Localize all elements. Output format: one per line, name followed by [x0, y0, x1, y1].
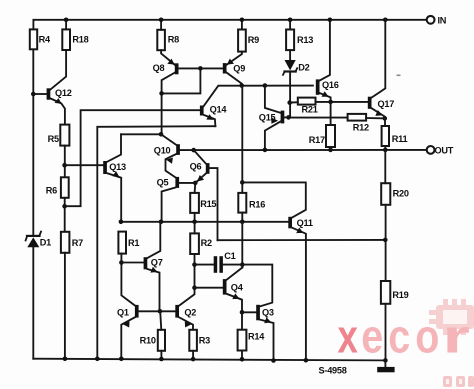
svg-text:R20: R20 [393, 189, 409, 199]
wire output line [194, 149, 427, 151]
ground symbol [384, 360, 386, 367]
svg-text:R16: R16 [249, 200, 265, 210]
transistor Q4 [223, 268, 243, 330]
svg-text:R2: R2 [201, 238, 212, 248]
wire R10 top lead [160, 311, 161, 330]
resistor R4 [30, 29, 37, 49]
svg-text:r: r [443, 310, 470, 363]
junction dot Q15 collector node [263, 83, 268, 88]
wire bottom ground rail [33, 359, 385, 361]
junction dot R7 ground [63, 357, 68, 362]
svg-text:Q1: Q1 [117, 307, 129, 317]
transistor Q1 [121, 305, 175, 359]
wire R1 bottom to Q1 collector [121, 254, 135, 306]
junction dot Q1 emitter ground [119, 357, 124, 362]
junction dot R8 top [159, 18, 164, 23]
junction dot C1 right node [240, 262, 245, 267]
svg-text:Q10: Q10 [154, 145, 171, 155]
wire R11 bottom lead [384, 146, 386, 150]
junction dot Q5 base / Q6 emitter / R15 [193, 181, 198, 186]
junction dot Q11 emitter ground [304, 358, 309, 363]
svg-text:R9: R9 [248, 35, 259, 45]
svg-text:Q5: Q5 [157, 178, 169, 188]
resistor R17 [326, 125, 335, 147]
wire Q13 base line [65, 164, 104, 166]
svg-text:Q17: Q17 [378, 99, 395, 109]
junction dot Q3 base / R14 [240, 310, 245, 315]
wire feedback line [218, 239, 386, 241]
junction dot R3 ground [191, 357, 196, 362]
watermark bottom-right fragment [443, 376, 474, 387]
transistor Q9 [223, 52, 242, 86]
svg-text:R1: R1 [128, 238, 139, 248]
wire R6 tap jog to Q14 base [65, 110, 200, 206]
junction dot R16 bottom node [240, 220, 245, 225]
svg-text:Q9: Q9 [233, 64, 245, 74]
wire Q8 collector-base link [162, 68, 201, 93]
junction dot R21 left [287, 100, 292, 105]
zener diode D1 [26, 232, 41, 248]
wire Q15 base to R12 [289, 117, 348, 119]
svg-text:R10: R10 [140, 335, 156, 345]
wire R21 left lead [290, 101, 298, 103]
resistor R2 [190, 233, 199, 254]
wire R20 to R19 [385, 205, 387, 281]
resistor R14 [238, 330, 247, 351]
transistor Q3 [256, 305, 273, 361]
svg-text:R13: R13 [297, 35, 313, 45]
junction dot R17 out [328, 148, 333, 153]
resistor R11 [382, 126, 389, 146]
wire C1 node to Q3 collector [242, 265, 272, 307]
transistor Q17 [368, 20, 386, 119]
resistor R20 [381, 183, 390, 205]
resistor R18 [62, 29, 70, 50]
wire Q14 emitter long return [97, 126, 215, 359]
wire R11 top lead [384, 118, 386, 126]
svg-text:R18: R18 [72, 35, 88, 45]
wire D2 to Q15 base node [289, 73, 291, 118]
junction dot Q17 collector rail [383, 18, 388, 23]
svg-text:R21: R21 [302, 105, 318, 115]
svg-text:R15: R15 [200, 199, 216, 209]
wire R13 top lead [289, 20, 291, 30]
junction dot ground rail end [383, 358, 388, 363]
svg-text:Q11: Q11 [297, 218, 313, 228]
svg-text:eco: eco [361, 311, 444, 363]
wire R7 bottom to rail [64, 253, 66, 359]
svg-text:Q4: Q4 [231, 283, 244, 293]
transistor Q13 [103, 134, 121, 222]
wire common node line [121, 221, 288, 223]
svg-text:Q3: Q3 [262, 308, 274, 318]
svg-text:R14: R14 [248, 332, 265, 342]
junction dot Q7 base / R1 [119, 260, 124, 265]
junction dot R20/R19 tap [383, 238, 388, 243]
resistor R9 [238, 30, 246, 52]
resistor R12 [348, 114, 367, 121]
resistor R21 [298, 98, 316, 105]
svg-text:Q7: Q7 [151, 258, 163, 268]
wire D1 anode to bottom rail [32, 247, 34, 359]
junction dot Q8 collector [159, 91, 164, 96]
transistor Q8 [161, 50, 223, 134]
junction dot Q15 base [286, 115, 291, 120]
resistor R16 [238, 193, 246, 213]
junction dot Q10 base / Q6 collector / out line [191, 148, 196, 153]
svg-text:x: x [338, 310, 359, 362]
transistor Q7 [121, 222, 160, 311]
resistor R10 [158, 330, 165, 351]
junction dot R15 bottom node [192, 220, 197, 225]
resistor R6 [61, 177, 69, 198]
wire R12 right lead [366, 117, 385, 119]
wire R10 bottom lead [160, 351, 162, 359]
resistor R8 [157, 30, 165, 50]
svg-text:IN: IN [438, 15, 447, 25]
wire R19 bottom lead [385, 304, 387, 361]
svg-text:R17: R17 [309, 135, 325, 145]
wire R15 top lead [194, 183, 197, 193]
junction dot Q8/Q9 base rail [198, 66, 203, 71]
junction dot R13 top [288, 18, 293, 23]
svg-text:R12: R12 [353, 122, 369, 132]
wire R2 top lead [194, 222, 196, 234]
transistor Q16 [316, 20, 331, 125]
junction dot Q17 emitter / R11 / R12 [383, 116, 388, 121]
wire R15 bottom lead [194, 213, 196, 222]
svg-text:R7: R7 [72, 238, 83, 248]
speck artifact [397, 75, 401, 77]
terminal OUT [427, 146, 435, 154]
junction dot Q1/Q2 base rail [158, 309, 163, 314]
junction dot R18 top [64, 18, 69, 23]
junction dot Q10 emitter node [159, 132, 164, 137]
watermark text xecor [338, 310, 470, 363]
junction dot R9 top [240, 18, 245, 23]
svg-text:R3: R3 [199, 335, 210, 345]
wire Q13 collector to Q10 emitter node [121, 133, 161, 135]
junction dot Q9 collector node [239, 83, 244, 88]
resistor R5 [60, 125, 69, 146]
wire left column R4 to D1 [32, 49, 34, 235]
transistor Q6 [194, 150, 218, 240]
wire R14 bottom lead [241, 351, 243, 360]
junction dot R1 top [119, 220, 124, 225]
svg-text:Q6: Q6 [190, 161, 202, 171]
junction dot Q12 base / R4 [31, 92, 36, 97]
junction dot Q3 emitter ground [271, 358, 276, 363]
wire Q11 collector branch [242, 182, 305, 217]
transistor Q14 [200, 86, 313, 127]
junction dot R21 right / Q16 emitter [328, 100, 333, 105]
transistor Q10 [161, 134, 194, 177]
zener diode D2 [283, 50, 297, 75]
svg-text:D1: D1 [40, 238, 51, 248]
svg-text:R8: R8 [168, 35, 179, 45]
svg-text:R19: R19 [392, 290, 408, 300]
wire R8 top lead [160, 20, 162, 30]
terminal IN [427, 16, 435, 24]
transistor Q2 [175, 305, 193, 330]
junction dot R16 top / Q11 collector branch [240, 180, 245, 185]
svg-text:R5: R5 [48, 134, 59, 144]
svg-text:Q8: Q8 [153, 63, 165, 73]
wire R9 top lead [241, 20, 243, 30]
svg-text:Q13: Q13 [109, 162, 126, 172]
wire R2 bottom to Q2 collector [179, 254, 194, 306]
transistor Q12 [33, 50, 66, 125]
junction dot Q14 emitter ground [95, 357, 100, 362]
junction dot Q15 emitter out [263, 148, 268, 153]
resistor R7 [61, 232, 70, 253]
wire R21 right lead / Q17 base line [316, 101, 368, 103]
junction dot Q4 base node [192, 285, 197, 290]
svg-text:S-4958: S-4958 [319, 366, 347, 376]
wire R20 top lead [384, 150, 386, 183]
wire Q4 base line [195, 287, 223, 289]
junction dot R5/R6 divider tap [62, 163, 67, 168]
wire Q9 collector to R16 [241, 86, 243, 193]
svg-text:R4: R4 [39, 35, 51, 45]
wire R5 to R6 [64, 146, 66, 178]
transistor Q15 [265, 86, 289, 150]
junction dot R10 ground [159, 357, 164, 362]
junction dot Q16 collector rail [328, 18, 333, 23]
wire Q3 base line [242, 311, 256, 313]
junction dot Q7 collector node [159, 220, 164, 225]
wire R16 bottom through nodes [241, 213, 243, 268]
svg-text:R11: R11 [392, 134, 408, 144]
svg-text:C1: C1 [224, 251, 235, 261]
wire R3 bottom lead [192, 351, 194, 359]
wire R18 top lead [65, 20, 67, 30]
wire R6 to R7 [64, 198, 66, 232]
svg-text:Q15: Q15 [259, 113, 276, 123]
svg-text:Q12: Q12 [55, 88, 72, 98]
transistor Q11 [288, 217, 306, 360]
resistor R13 [286, 30, 294, 51]
wire top supply rail [33, 20, 426, 30]
capacitor C1 [195, 256, 243, 273]
svg-text:R6: R6 [46, 186, 57, 196]
svg-text:Q14: Q14 [210, 105, 228, 115]
junction dot C1 left / R2 [192, 262, 197, 267]
resistor R15 [190, 193, 199, 213]
junction dot R14 ground [240, 357, 245, 362]
svg-text:Q2: Q2 [184, 307, 196, 317]
resistor R3 [189, 330, 197, 351]
transistor Q5 [162, 177, 196, 222]
svg-text:OUT: OUT [435, 145, 454, 155]
watermark logo chip icon [429, 299, 474, 335]
resistor R19 [381, 281, 390, 304]
svg-text:D2: D2 [298, 63, 309, 73]
junction dot R11/R20 out [383, 148, 388, 153]
svg-text:Q16: Q16 [322, 80, 339, 90]
resistor R1 [118, 232, 126, 254]
wire R17 bottom lead [330, 147, 332, 150]
junction dot R6/R7 tap [62, 204, 67, 209]
